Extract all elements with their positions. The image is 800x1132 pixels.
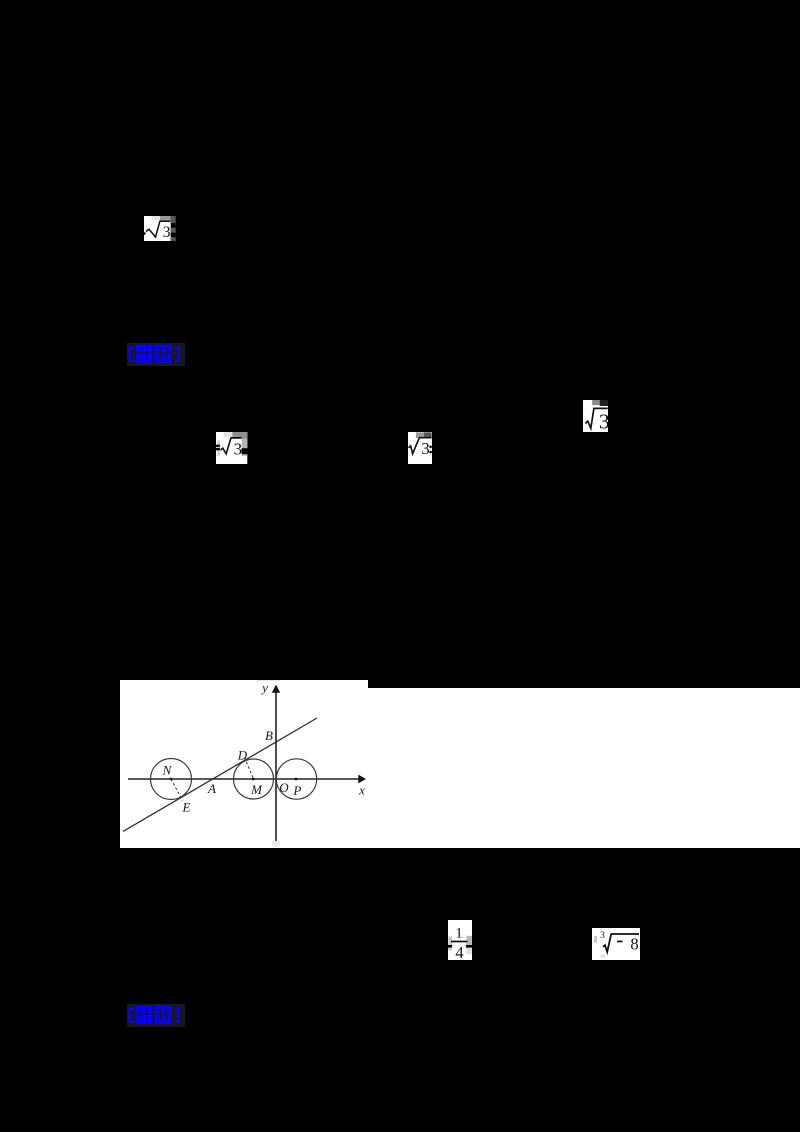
formula image F3: = sqrt(3) [216,432,248,464]
svg-text:P: P [292,783,301,798]
formula image F6: cbrt(-8) [592,928,640,960]
labels [162,680,365,815]
y-axis [275,691,277,841]
dashed radius N-E [171,779,183,801]
svg-text:N: N [162,763,173,778]
circle N [151,759,192,800]
formula image F2: sqrt(3) large [583,400,608,432]
circle M [234,759,274,799]
gray handle square at bottom of y-axis [272,841,280,847]
label: blue tag 2 [127,1004,186,1028]
svg-text:1: 1 [455,926,463,942]
svg-text:3: 3 [600,931,605,941]
svg-text:8: 8 [630,935,638,954]
svg-text:D: D [237,748,248,763]
label: blue tag 1 [127,343,186,367]
white band right of figure [368,688,800,848]
line through A and B [123,718,317,832]
svg-text:M: M [250,782,263,797]
svg-text:E: E [182,799,191,814]
svg-text:B: B [265,728,273,743]
dashed radius D-M [245,758,254,780]
svg-text:3: 3 [599,409,608,432]
svg-text:A: A [207,781,216,796]
circle P [276,759,316,799]
svg-text:O: O [279,780,289,795]
faint top edge line [256,680,280,681]
formula image F1: sqrt(3) [144,216,176,241]
geometry figure image [120,680,368,848]
svg-text:3: 3 [234,439,243,458]
formula image F5: fraction 1/4 [448,920,472,960]
svg-text:y: y [260,680,268,695]
svg-text:3: 3 [421,439,430,458]
formula image F4: sqrt(3) [408,432,432,464]
svg-text:4: 4 [455,943,463,960]
x-axis [128,778,359,780]
svg-text:x: x [358,783,365,798]
svg-text:3: 3 [163,224,171,241]
